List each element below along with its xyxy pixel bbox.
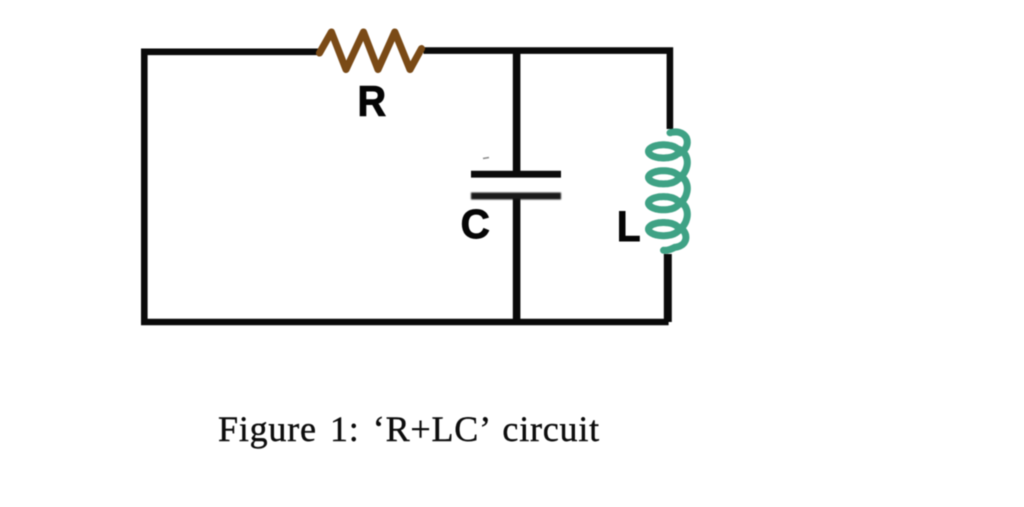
resistor R zigzag: [320, 32, 422, 70]
capacitor C bottom plate: [471, 193, 561, 200]
inductor L coil: [649, 132, 688, 251]
artifact gray dash: [483, 158, 489, 159]
wire: capacitor branch bottom stub: [513, 196, 521, 322]
svg-text:R: R: [358, 77, 387, 125]
svg-text:Figure 1: ‘R+LC’ circuit: Figure 1: ‘R+LC’ circuit: [218, 409, 600, 449]
capacitor C top plate: [471, 171, 561, 178]
svg-text:L: L: [617, 202, 641, 250]
wire: right lower stub below inductor: [664, 254, 672, 322]
wire: capacitor branch top stub: [513, 51, 521, 175]
wire: left + bottom of outer loop with right lower corner: [144, 52, 668, 322]
svg-text:C: C: [461, 201, 490, 247]
wire: top-right segment from resistor to inductor top stub: [424, 51, 670, 129]
